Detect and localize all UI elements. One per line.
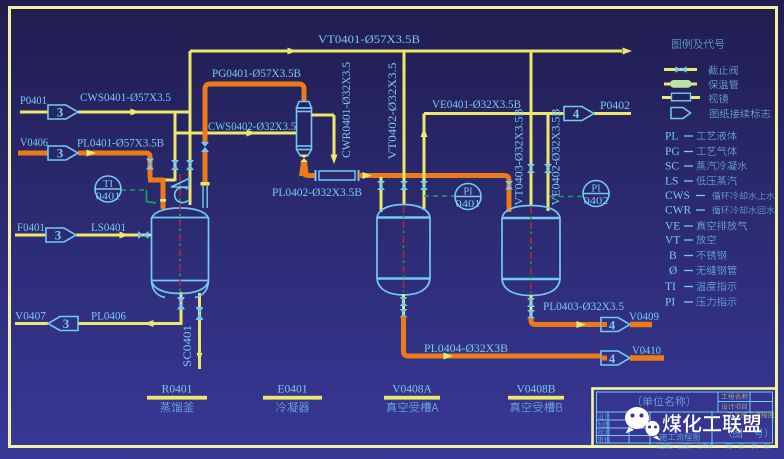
legend insulated pipe symbol bbox=[664, 83, 697, 86]
svg-text:CWS0402-Ø32X3.5: CWS0402-Ø32X3.5 bbox=[208, 121, 296, 133]
wire V0408A bottom bbox=[402, 294, 405, 318]
svg-text:V0410: V0410 bbox=[632, 345, 661, 357]
instrument TI0401 bbox=[95, 176, 121, 202]
node V0407 connector bbox=[48, 317, 78, 331]
svg-text:CWS: CWS bbox=[665, 190, 690, 202]
vessel V0408A bbox=[377, 205, 430, 296]
wire R0401 bottom outlet left bbox=[180, 292, 183, 324]
wire PL0403 bbox=[531, 318, 612, 325]
instrument line PI0402 bbox=[550, 196, 583, 198]
legend sheet-continuation symbol bbox=[671, 108, 691, 119]
svg-text:0402: 0402 bbox=[584, 196, 609, 207]
wire PL0402 elbow bbox=[304, 170, 317, 176]
svg-text:3: 3 bbox=[57, 105, 64, 120]
svg-text:CWS0401-Ø57X3.5: CWS0401-Ø57X3.5 bbox=[80, 92, 171, 104]
flange PG bbox=[201, 182, 210, 186]
svg-text:3: 3 bbox=[63, 316, 70, 331]
svg-text:PL0403-Ø32X3.5: PL0403-Ø32X3.5 bbox=[543, 301, 624, 313]
svg-text:VT0403-Ø32X3.5B: VT0403-Ø32X3.5B bbox=[514, 108, 526, 205]
wire VT0401 vent header bbox=[190, 50, 622, 53]
svg-text:CWR: CWR bbox=[665, 205, 692, 217]
svg-text:VE: VE bbox=[665, 221, 680, 233]
vessel V0408B bbox=[502, 206, 560, 296]
wire CWS feed to dip tube bbox=[156, 179, 175, 182]
valve VT0403 bbox=[527, 164, 535, 173]
svg-text:PL0406: PL0406 bbox=[91, 311, 126, 323]
svg-text:LS0401: LS0401 bbox=[91, 222, 126, 234]
svg-text:V0408A: V0408A bbox=[392, 384, 432, 396]
valve branch V0408A bbox=[377, 181, 385, 190]
svg-text:PL: PL bbox=[665, 131, 678, 143]
label CWR0401 bbox=[341, 62, 353, 158]
valve CWS drop bbox=[171, 160, 179, 170]
svg-text:VE0401-Ø32X3.5B: VE0401-Ø32X3.5B bbox=[432, 99, 521, 111]
wire PL0404 bbox=[404, 316, 613, 356]
valve PL0402 drop bbox=[505, 181, 513, 190]
svg-text:PI: PI bbox=[463, 187, 473, 198]
wire PL0406 bbox=[15, 322, 48, 325]
svg-text:V0408B: V0408B bbox=[517, 384, 556, 396]
wire PL0401 elbow bbox=[148, 178, 164, 183]
wire CWR0401 bbox=[312, 114, 335, 117]
label VT0403 bbox=[514, 108, 526, 205]
svg-text:SC0401: SC0401 bbox=[182, 325, 194, 367]
bare pipe into dome bbox=[202, 186, 204, 208]
svg-text:B: B bbox=[669, 250, 677, 262]
svg-text:3: 3 bbox=[57, 146, 64, 161]
svg-text:0401: 0401 bbox=[96, 192, 121, 203]
condenser E0401 bbox=[297, 102, 312, 157]
agitator funnel symbol bbox=[171, 179, 189, 188]
wire SC0401 bbox=[198, 293, 201, 369]
wire dip tube into R0401 bbox=[161, 178, 166, 209]
svg-text:0401: 0401 bbox=[456, 199, 481, 210]
wire VE0401 riser bbox=[423, 114, 426, 211]
wire LS0401 bbox=[15, 234, 46, 237]
svg-text:R0401: R0401 bbox=[162, 384, 193, 396]
node V0410 connector bbox=[601, 351, 630, 365]
svg-text:PG: PG bbox=[665, 146, 680, 158]
node V0406 connector bbox=[48, 146, 78, 160]
svg-text:Ø: Ø bbox=[669, 265, 677, 277]
valve bottom outlet left bbox=[177, 297, 185, 310]
valve VE0402 bbox=[544, 164, 552, 173]
svg-text:F0401: F0401 bbox=[17, 222, 45, 234]
valve VE0401 riser bbox=[420, 181, 428, 190]
instrument line PI0401 bbox=[424, 195, 455, 197]
svg-text:CWR0401-Ø32X3.5: CWR0401-Ø32X3.5 bbox=[341, 62, 353, 158]
wire branch to V0408A bbox=[380, 177, 383, 212]
vessel R0401 bbox=[152, 208, 209, 298]
node P0401 connector bbox=[48, 105, 78, 119]
svg-text:PL0402-Ø32X3.5B: PL0402-Ø32X3.5B bbox=[272, 187, 362, 199]
node V0409 connector bbox=[601, 318, 630, 332]
svg-text:PI: PI bbox=[591, 184, 601, 195]
svg-text:P0401: P0401 bbox=[20, 95, 47, 107]
title block grid bbox=[597, 392, 773, 446]
svg-text:4: 4 bbox=[573, 106, 580, 121]
valve below condenser bbox=[300, 155, 308, 163]
wire vent riser from R0401 bbox=[189, 51, 192, 205]
svg-text:3: 3 bbox=[55, 228, 62, 243]
instrument line TI0401 bbox=[121, 189, 145, 191]
centerline R0401 bbox=[179, 174, 181, 291]
wire VE0402 bbox=[547, 114, 550, 212]
valve LS0401 bbox=[138, 231, 149, 239]
svg-text:V0406: V0406 bbox=[20, 137, 48, 149]
wire VE0401 header bbox=[424, 112, 564, 115]
reducer below condenser bbox=[299, 162, 309, 176]
wire PL0401 bbox=[18, 151, 48, 156]
node F0401 connector bbox=[46, 228, 76, 242]
svg-text:SC: SC bbox=[665, 161, 679, 173]
centerline V0408A bbox=[403, 206, 405, 292]
centerline V0408B bbox=[530, 207, 532, 293]
svg-text:VT0402-Ø32X3.5: VT0402-Ø32X3.5 bbox=[387, 62, 399, 159]
svg-text:VT: VT bbox=[665, 235, 680, 247]
svg-text:LS: LS bbox=[665, 176, 678, 188]
wire V0408B bottom bbox=[530, 295, 533, 321]
wire VT0402 bbox=[403, 51, 406, 205]
instrument PI0402 bbox=[583, 181, 609, 207]
wire VT0403 bbox=[530, 51, 533, 206]
svg-text:4: 4 bbox=[609, 318, 616, 333]
svg-text:VE0402-Ø32X3.5B: VE0402-Ø32X3.5B bbox=[551, 108, 563, 205]
svg-text:V0407: V0407 bbox=[15, 311, 46, 323]
svg-text:VT0401-Ø57X3.5B: VT0401-Ø57X3.5B bbox=[318, 34, 420, 46]
title block texts bbox=[639, 396, 689, 406]
wire CWS0402 bbox=[175, 132, 296, 135]
svg-text:P0402: P0402 bbox=[600, 100, 630, 112]
dip tube flange band bbox=[160, 199, 166, 202]
wire PG0401 riser bbox=[205, 84, 304, 142]
label VT0402 bbox=[387, 62, 399, 159]
valve PG riser bbox=[201, 142, 209, 152]
watermark wechat icon bbox=[625, 407, 661, 441]
svg-text:PI: PI bbox=[665, 297, 675, 309]
label SC0401 bbox=[182, 325, 194, 367]
svg-text:E0401: E0401 bbox=[277, 384, 307, 396]
svg-text:PL0401-Ø57X3.5B: PL0401-Ø57X3.5B bbox=[77, 138, 164, 150]
valve on vent riser bbox=[186, 160, 194, 170]
instrument PI0401 bbox=[455, 184, 481, 210]
svg-text:PG0401-Ø57X3.5B: PG0401-Ø57X3.5B bbox=[212, 68, 301, 80]
wire CWS0401 bbox=[20, 111, 48, 114]
wire CWS drop to jacket bbox=[174, 112, 177, 181]
legend title bbox=[672, 39, 724, 49]
sight glass bbox=[315, 170, 317, 181]
title block frame bbox=[593, 389, 777, 447]
legend sight glass symbol bbox=[662, 96, 700, 99]
label VE0402 bbox=[551, 108, 563, 205]
svg-text:4: 4 bbox=[609, 351, 616, 366]
node P0402 connector bbox=[564, 107, 594, 121]
valve SC0401 bbox=[196, 307, 204, 320]
svg-text:TI: TI bbox=[665, 281, 676, 293]
svg-text:TI: TI bbox=[103, 179, 113, 190]
svg-text:PL0404-Ø32X3B: PL0404-Ø32X3B bbox=[424, 343, 508, 355]
valve VT0402 bbox=[400, 181, 408, 190]
svg-text:V0409: V0409 bbox=[629, 311, 659, 323]
watermark text bbox=[663, 414, 762, 433]
wire PL0402 bbox=[359, 176, 510, 213]
valve PL0401 drop bbox=[146, 159, 154, 170]
legend valve symbol bbox=[664, 68, 697, 71]
agitator curl symbol bbox=[175, 187, 188, 202]
